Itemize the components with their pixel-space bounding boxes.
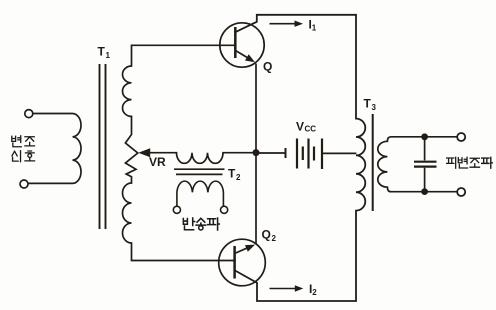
svg-text:2: 2 [312,288,317,297]
svg-text:Q: Q [262,228,271,242]
svg-text:T: T [364,97,372,111]
svg-text:2: 2 [272,234,277,243]
svg-text:3: 3 [372,103,377,112]
svg-text:1: 1 [106,51,111,60]
svg-text:VR: VR [149,155,166,169]
svg-text:2: 2 [236,173,241,182]
svg-text:T: T [228,167,236,181]
svg-text:T: T [98,45,106,59]
svg-text:Q: Q [263,60,272,74]
svg-text:V: V [296,120,304,134]
svg-text:CC: CC [305,125,317,134]
svg-text:1: 1 [312,23,317,32]
